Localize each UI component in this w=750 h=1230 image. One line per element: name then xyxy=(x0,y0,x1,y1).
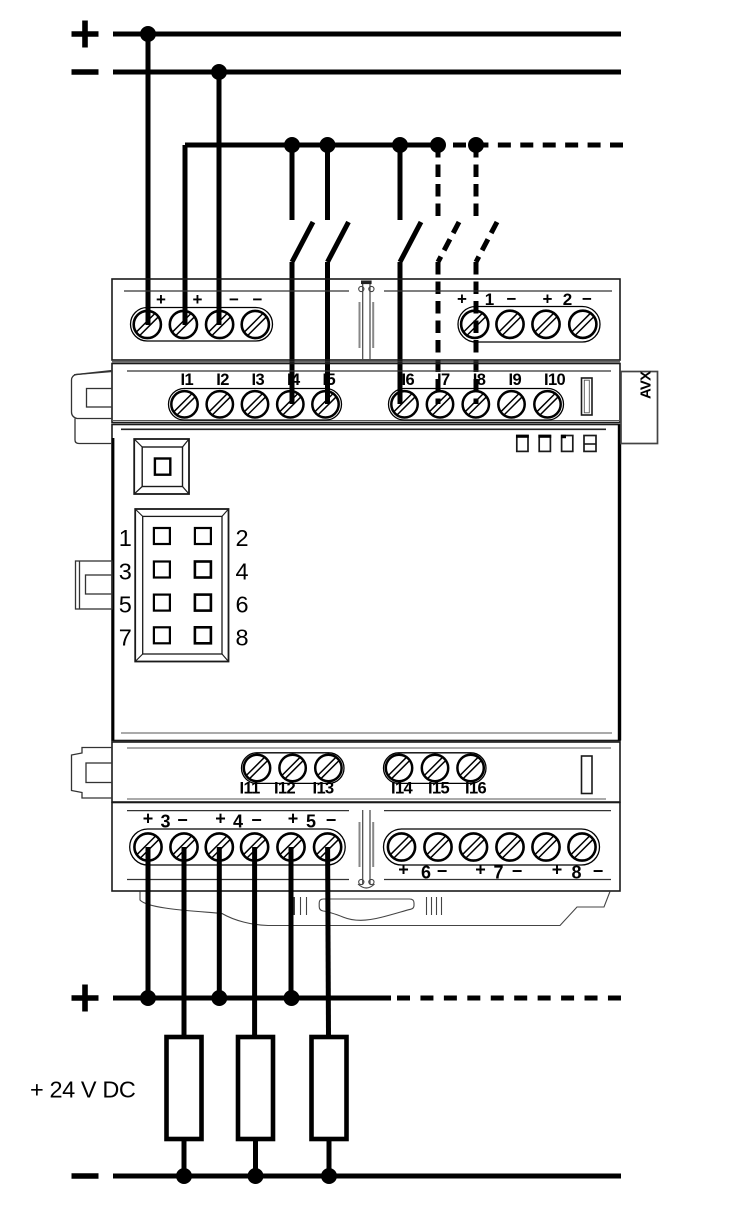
wire R3 to - rail xyxy=(327,1139,332,1176)
input terminal row outline xyxy=(112,364,620,423)
resistor load R1 xyxy=(167,1037,202,1139)
ribs left xyxy=(292,897,295,915)
left bus tab middle xyxy=(76,561,113,609)
input row inner bottom line xyxy=(112,420,620,422)
LED indicator 1 xyxy=(516,436,596,452)
junction dot I6 branch xyxy=(392,137,408,153)
terminal +2 xyxy=(532,311,559,338)
bottom terminal block outline xyxy=(112,803,620,892)
svg-text:I13: I13 xyxy=(313,780,335,798)
terminal +3 xyxy=(134,833,161,860)
labels I11-I16 xyxy=(240,780,487,798)
svg-text:−: − xyxy=(593,861,604,881)
terminal I5 xyxy=(312,391,338,417)
junction dot I7 branch xyxy=(430,137,446,153)
left DIN clip top xyxy=(72,371,113,444)
svg-text:−: − xyxy=(512,861,523,881)
terminal + (2) xyxy=(170,311,197,338)
svg-text:8: 8 xyxy=(571,863,581,883)
junction dot +3 xyxy=(140,990,156,1006)
terminal +5 xyxy=(277,833,304,860)
top wire channel xyxy=(359,281,374,361)
svg-text:I8: I8 xyxy=(473,371,486,389)
terminal I11 xyxy=(244,755,270,781)
terminal I13 xyxy=(315,755,341,781)
top block inner line right xyxy=(384,290,612,292)
pin 2 xyxy=(195,528,211,544)
wire R2 to - rail xyxy=(253,1139,258,1176)
output terminal row outline xyxy=(112,742,620,802)
svg-text:3: 3 xyxy=(119,559,132,585)
pin 7 xyxy=(154,627,170,643)
wire + rail bottom dashed xyxy=(397,996,621,1001)
terminal I6 xyxy=(391,391,417,417)
extension connector 1-8 xyxy=(135,509,228,662)
switch S5 dashed to I8 xyxy=(476,145,497,404)
junction dot I4 branch xyxy=(284,137,300,153)
svg-text:I15: I15 xyxy=(428,780,450,798)
svg-text:8: 8 xyxy=(235,624,248,650)
wire R1 to - rail xyxy=(182,1139,187,1176)
svg-text:−: − xyxy=(253,290,263,309)
terminal +4 xyxy=(206,833,233,860)
labels I1-I10 xyxy=(181,371,566,389)
wire common line solid part xyxy=(185,143,445,148)
svg-text:I3: I3 xyxy=(252,371,265,389)
pin labels xyxy=(119,525,249,650)
terminal I14 xyxy=(386,755,412,781)
svg-text:+: + xyxy=(143,809,154,829)
resistor load R3 xyxy=(312,1037,347,1139)
wire -5 down xyxy=(325,847,331,1037)
bottom block inner line top-right xyxy=(384,810,611,812)
MODULE-FRAME xyxy=(72,279,658,926)
svg-text:I1: I1 xyxy=(181,371,194,389)
bottom wire channel xyxy=(358,810,375,888)
switch S2 to I5 xyxy=(328,145,349,404)
terminal I3 xyxy=(242,391,268,417)
terminal I4 xyxy=(277,391,303,417)
svg-text:+: + xyxy=(215,809,226,829)
svg-text:+: + xyxy=(457,290,467,309)
output group +1-+2- stadium xyxy=(458,307,600,343)
svg-text:I11: I11 xyxy=(240,780,261,798)
wire -4 down xyxy=(252,847,257,1037)
terminal +8 xyxy=(532,833,559,860)
terminal I10 xyxy=(534,391,560,417)
body inner bottom line xyxy=(121,732,612,734)
wire -3 down xyxy=(182,847,187,1037)
terminal I8 xyxy=(463,391,489,417)
slot right of I10 xyxy=(582,378,593,415)
svg-text:4: 4 xyxy=(233,812,243,832)
wire - rail bottom xyxy=(113,1174,621,1179)
terminal I16 xyxy=(457,755,483,781)
resistor load R2 xyxy=(238,1037,273,1139)
svg-text:4: 4 xyxy=(235,559,248,585)
pin 8 xyxy=(195,627,211,643)
output row inner bottom line xyxy=(127,798,606,800)
terminal +1 xyxy=(461,311,488,338)
svg-text:I7: I7 xyxy=(437,371,450,389)
svg-text:6: 6 xyxy=(421,863,431,883)
svg-text:1: 1 xyxy=(485,290,494,309)
terminal I9 xyxy=(498,391,524,417)
svg-text:+: + xyxy=(552,860,563,880)
terminal - (4) xyxy=(242,311,269,338)
junction dot +4 xyxy=(211,990,227,1006)
svg-text:I4: I4 xyxy=(287,371,301,389)
svg-text:I10: I10 xyxy=(544,371,566,389)
ribs right xyxy=(426,897,428,915)
input group I6-I10 stadium xyxy=(389,389,564,421)
svg-text:5: 5 xyxy=(306,812,316,832)
terminal -1 xyxy=(496,311,523,338)
top block inner line left xyxy=(124,290,349,292)
LED indicator 3 xyxy=(562,436,573,452)
main body right edge thick xyxy=(618,425,621,741)
svg-text:+: + xyxy=(288,809,299,829)
terminal I12 xyxy=(279,755,305,781)
terminal -2 xyxy=(569,311,596,338)
switch S3 to I6 xyxy=(400,145,421,404)
junction dot I5 branch xyxy=(320,137,336,153)
pin 5 xyxy=(154,595,170,611)
svg-text:−: − xyxy=(251,810,262,830)
labels +6- +7- +8- xyxy=(398,860,603,883)
input group I1-I5 stadium xyxy=(169,389,342,421)
svg-text:6: 6 xyxy=(235,592,248,618)
junction dot R3 xyxy=(321,1168,337,1184)
plus symbol top xyxy=(72,21,99,48)
svg-text:−: − xyxy=(582,290,592,309)
junction dot R1 xyxy=(176,1168,192,1184)
left DIN clip bottom xyxy=(72,748,113,799)
svg-text:+ 24 V DC: + 24 V DC xyxy=(30,1077,136,1103)
terminal + (1) xyxy=(134,311,161,338)
terminal -3 xyxy=(170,833,197,860)
LED indicator 2 xyxy=(539,436,550,452)
svg-text:+: + xyxy=(193,290,203,309)
terminal group 3-4-5 stadium xyxy=(130,829,346,865)
bottom housing profile xyxy=(140,892,610,926)
main body outline xyxy=(112,425,620,741)
wire + rail top xyxy=(113,32,621,37)
svg-text:−: − xyxy=(177,810,188,830)
pin 1 xyxy=(154,528,170,544)
wire from common line corner to terminal block xyxy=(183,145,188,325)
output row inner top line xyxy=(127,747,611,749)
terminal -8 xyxy=(568,833,595,860)
input row inner top line xyxy=(127,370,611,372)
node plus-rail-top xyxy=(72,21,622,81)
svg-text:1: 1 xyxy=(119,525,132,551)
switch S1 to I4 xyxy=(292,145,313,404)
svg-text:−: − xyxy=(326,810,337,830)
svg-text:I6: I6 xyxy=(402,371,415,389)
top terminal block outline xyxy=(112,279,620,360)
svg-text:7: 7 xyxy=(119,624,132,650)
junction dot I8 branch xyxy=(468,137,484,153)
main body left edge thick xyxy=(112,438,115,741)
labels +3- +4- +5- xyxy=(143,809,337,832)
terminal I7 xyxy=(427,391,453,417)
wire common line dashed part xyxy=(453,143,623,148)
node input common line xyxy=(185,137,623,153)
minus symbol bottom xyxy=(72,1173,99,1179)
junction dot on - rail xyxy=(211,64,227,80)
svg-text:−: − xyxy=(437,861,448,881)
svg-text:7: 7 xyxy=(493,863,503,883)
wire - rail top xyxy=(113,70,621,75)
bottom block inner line top-left xyxy=(127,810,349,812)
output group I14-I16 stadium xyxy=(384,753,487,784)
plus symbol bottom xyxy=(72,985,99,1012)
terminal +7 xyxy=(460,833,487,860)
svg-text:+: + xyxy=(156,290,166,309)
terminal I15 xyxy=(422,755,448,781)
junction dot +5 xyxy=(284,990,300,1006)
svg-text:−: − xyxy=(507,290,517,309)
svg-text:I9: I9 xyxy=(509,371,522,389)
LED indicator 4 xyxy=(584,436,596,452)
svg-text:I14: I14 xyxy=(391,780,414,798)
pin 6 xyxy=(195,595,211,611)
svg-text:2: 2 xyxy=(235,525,248,551)
wire from + rail to terminal block xyxy=(146,34,151,325)
svg-text:I5: I5 xyxy=(323,371,336,389)
terminal -6 xyxy=(424,833,451,860)
wire +3 down xyxy=(146,847,151,998)
din rail slot xyxy=(319,899,414,920)
body inner top line xyxy=(121,428,606,430)
switch S4 dashed to I7 xyxy=(438,145,459,404)
terminal - (3) xyxy=(206,311,233,338)
wire +5 down xyxy=(289,847,294,998)
slot right of I16 xyxy=(582,756,593,794)
pushbutton xyxy=(134,439,189,494)
junction dot on + rail xyxy=(140,26,156,42)
svg-text:3: 3 xyxy=(160,812,170,832)
svg-text:I12: I12 xyxy=(274,780,296,798)
svg-text:2: 2 xyxy=(563,290,572,309)
top block bottom double line xyxy=(112,361,620,363)
pin 4 xyxy=(195,562,211,578)
wire + rail bottom solid xyxy=(113,996,391,1001)
terminal -4 xyxy=(241,833,268,860)
svg-text:+: + xyxy=(398,860,409,880)
svg-text:+: + xyxy=(543,290,553,309)
output group I11-I13 stadium xyxy=(242,753,345,784)
terminal I1 xyxy=(171,391,197,417)
terminal +6 xyxy=(388,833,415,860)
terminal -5 xyxy=(314,833,341,860)
wire from - rail to terminal block xyxy=(217,72,222,325)
bottom block inner line right xyxy=(384,879,611,881)
terminal -7 xyxy=(496,833,523,860)
terminal group 6-7-8 stadium xyxy=(384,829,600,865)
wire +4 down xyxy=(217,847,222,998)
svg-text:5: 5 xyxy=(119,592,132,618)
pin 3 xyxy=(154,562,170,578)
svg-text:I16: I16 xyxy=(465,780,487,798)
svg-text:−: − xyxy=(229,290,239,309)
svg-text:I2: I2 xyxy=(216,371,229,389)
bottom block inner line left xyxy=(127,879,349,881)
terminal group ++-- stadium xyxy=(131,308,273,342)
svg-text:+: + xyxy=(475,860,486,880)
svg-text:AVX: AVX xyxy=(637,371,654,399)
terminal I2 xyxy=(207,391,233,417)
AVX tab xyxy=(621,371,658,444)
minus symbol top xyxy=(72,69,99,75)
junction dot R2 xyxy=(248,1168,264,1184)
